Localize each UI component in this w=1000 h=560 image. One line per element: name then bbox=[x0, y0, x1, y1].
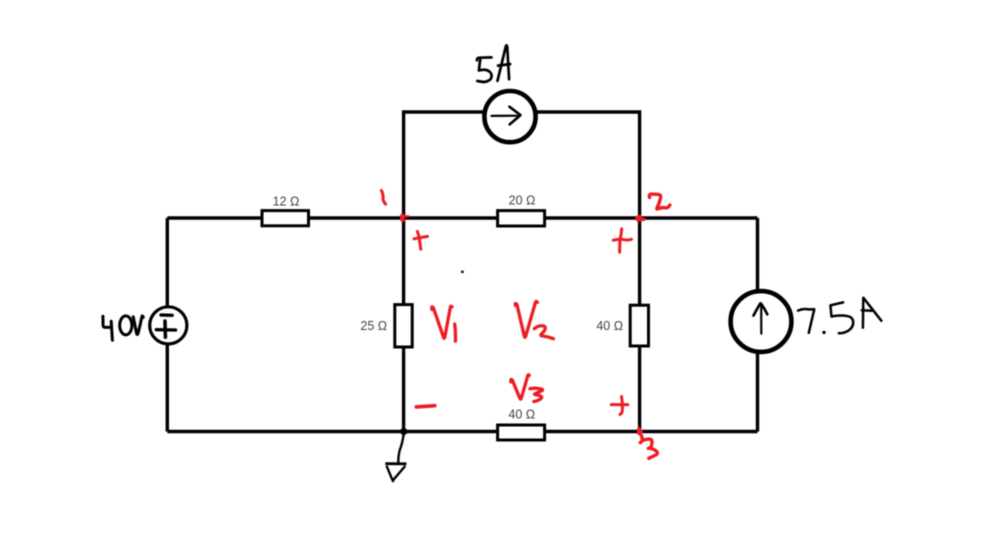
svg-text:20 Ω: 20 Ω bbox=[509, 193, 536, 207]
svg-text:25 Ω: 25 Ω bbox=[360, 319, 387, 333]
svg-text:40 Ω: 40 Ω bbox=[596, 319, 623, 333]
svg-text:12 Ω: 12 Ω bbox=[273, 194, 300, 208]
svg-text:40 Ω: 40 Ω bbox=[508, 407, 535, 421]
